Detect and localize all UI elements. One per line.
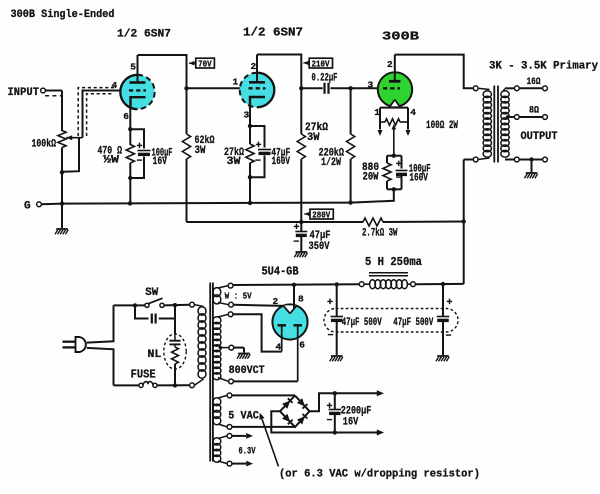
svg-text:1/2 6SN7: 1/2 6SN7: [243, 26, 303, 40]
node NL bottom junction: [173, 383, 177, 387]
svg-text:2: 2: [251, 61, 257, 72]
tube V2 cathode: [250, 97, 265, 108]
880 network box top: [387, 155, 402, 157]
wire V1 cathode down: [129, 108, 131, 146]
capacitor 47uF 350V: [295, 231, 307, 233]
HV winding top terminal: [228, 312, 233, 317]
PT primary top terminal: [190, 302, 195, 307]
svg-text:−: −: [327, 416, 333, 427]
svg-text:70V: 70V: [198, 58, 212, 69]
capacitor 47uF 500V left: [330, 316, 343, 318]
wire HV CT stub: [219, 347, 229, 349]
wire bridge minus rail: [271, 411, 377, 432]
svg-text:½W: ½W: [103, 154, 119, 166]
shielded cable dashes to grid: [78, 88, 114, 136]
wire 8 ohm tap: [507, 116, 514, 118]
wire HV CT to ground: [234, 347, 244, 349]
dashed capacitor group outline: [324, 309, 458, 333]
svg-text:3W: 3W: [195, 145, 206, 157]
fuse: [139, 383, 143, 387]
NL electrodes: [174, 334, 176, 340]
wire pot bottom: [61, 148, 63, 229]
wire wiper to V1 grid: [83, 91, 127, 138]
svg-text:16Ω: 16Ω: [527, 77, 541, 88]
ground at OPT secondary: [526, 172, 538, 174]
svg-text:350V: 350V: [309, 241, 330, 253]
wire V1 plate to 62k line: [138, 54, 187, 56]
svg-text:16V: 16V: [343, 416, 359, 428]
svg-text:SW: SW: [145, 287, 158, 299]
tube V2 grid: [249, 87, 266, 89]
OPT primary top terminal: [473, 86, 478, 91]
node pot ground junction: [60, 170, 64, 174]
NL resistor: [174, 344, 176, 347]
wire HV top to pin4: [233, 314, 282, 351]
svg-text:20W: 20W: [363, 172, 379, 184]
wire HV bottom to pin6: [233, 380, 297, 382]
pot R1 wiper arrow: [66, 135, 72, 140]
tube 5U4 left plate: [278, 324, 287, 326]
svg-text:G: G: [24, 201, 31, 213]
resistor 220k grid leak: [347, 134, 355, 159]
node V1 cathode junction: [128, 127, 132, 131]
svg-text:300B Single-Ended: 300B Single-Ended: [11, 9, 115, 21]
svg-text:3K - 3.5K Primary: 3K - 3.5K Primary: [489, 61, 598, 73]
resistor 62k 3W: [182, 134, 190, 159]
tube V2 plate: [249, 81, 265, 84]
svg-text:2.7kΩ 3W: 2.7kΩ 3W: [362, 228, 398, 240]
wire 5VAC bottom to bridge: [232, 426, 295, 428]
resistor 880 20W: [386, 156, 388, 163]
svg-text:INPUT: INPUT: [8, 87, 40, 99]
node V1 cathode cap bottom junction: [128, 176, 132, 180]
node 280V cap junction: [299, 220, 303, 224]
OPT 8ohm tap terminal: [514, 115, 519, 120]
svg-text:−: −: [328, 331, 334, 342]
svg-text:1/2 6SN7: 1/2 6SN7: [117, 29, 171, 41]
wire V2 cathode cap branch: [250, 126, 265, 148]
wire hum pot left arm: [379, 108, 381, 130]
capacitor 2200uF 16V: [334, 393, 336, 409]
node B+ riser junction: [462, 219, 466, 223]
wire grid node to 220k: [350, 88, 352, 134]
OPT primary bottom terminal: [473, 157, 478, 162]
capacitor 100uF 160V (300B): [401, 156, 403, 169]
tube V1 grid: [129, 89, 146, 91]
svg-text:+: +: [294, 223, 300, 234]
wire 0 ohm tap: [505, 159, 514, 161]
resistor 2.7k 3W: [363, 218, 383, 226]
svg-text:47µF 500V: 47µF 500V: [393, 317, 433, 329]
resistor 27k 3W cathode: [246, 144, 254, 163]
ground at input pot: [56, 228, 68, 230]
wire V1 cathode cap branch: [130, 129, 144, 148]
OPT secondary coil: [501, 91, 509, 98]
wire V2 cathode down: [249, 107, 251, 144]
tube 300B grid: [383, 87, 400, 89]
wire 16 ohm out: [519, 87, 542, 89]
svg-text:3: 3: [244, 110, 250, 121]
annotation arrow to 5VAC: [262, 419, 279, 467]
svg-text:210V: 210V: [312, 58, 330, 69]
svg-text:8Ω: 8Ω: [529, 106, 539, 117]
svg-text:OUTPUT: OUTPUT: [521, 131, 558, 143]
wire right filter cap: [442, 284, 444, 316]
tube 5U4 filament notch: [283, 305, 297, 313]
node V1 plate junction: [184, 86, 188, 90]
wire 0 ohm out: [519, 159, 542, 161]
5V winding top terminal: [228, 283, 233, 288]
wire rectifier B+ rail: [232, 283, 360, 286]
capacitor 47uF 500V right: [437, 316, 450, 318]
node 2200uF bottom junction: [333, 430, 337, 434]
svg-text:5 VAC: 5 VAC: [228, 410, 259, 422]
bridge diode D1: [282, 401, 290, 409]
svg-text:1: 1: [233, 77, 239, 88]
svg-text:−: −: [137, 157, 143, 168]
HV winding bottom terminal: [229, 379, 234, 384]
16 ohm out terminal: [543, 86, 548, 91]
resistor 27k 3W plate load: [297, 134, 305, 159]
svg-text:8: 8: [298, 294, 304, 305]
node 300B grid junction: [348, 86, 352, 90]
OPT 16ohm tap terminal: [514, 86, 519, 91]
svg-text:800VCT: 800VCT: [229, 365, 265, 377]
wire to V2 grid: [187, 87, 241, 89]
voltage box 280V: [304, 212, 310, 217]
svg-text:4: 4: [112, 80, 118, 91]
wire plug to switch rail: [87, 305, 114, 342]
5VAC bottom terminal: [227, 425, 232, 430]
6.3V bottom terminal: [227, 461, 232, 466]
node left filter cap junction: [335, 282, 339, 286]
wire 16 ohm tap: [505, 87, 514, 89]
svg-text:160V: 160V: [272, 156, 291, 168]
node secondary ground junction: [529, 157, 533, 161]
svg-text:(or 6.3 VAC w/dropping resisto: (or 6.3 VAC w/dropping resistor): [279, 469, 480, 481]
tube 300B envelope: [378, 72, 412, 106]
node junction pot/gbus: [60, 201, 64, 205]
capacitor 47uF 160V: [258, 149, 271, 151]
ground at 47uF 350V: [296, 251, 308, 253]
wire 220k to ground bus: [350, 159, 352, 203]
OPT 0ohm tap terminal: [514, 157, 519, 162]
svg-text:3: 3: [368, 79, 374, 90]
bridge diode D2: [297, 398, 305, 406]
node 2200uF top junction: [333, 391, 337, 395]
wire shield drain: [63, 138, 79, 172]
svg-text:−: −: [255, 157, 261, 168]
wire fuse rail: [114, 384, 139, 386]
AC plug: [63, 341, 77, 343]
svg-text:3W: 3W: [227, 156, 241, 168]
bridge diode D3: [282, 414, 290, 422]
svg-text:2: 2: [387, 59, 393, 70]
voltage box 70V: [189, 61, 195, 66]
wire grid node to 300B: [351, 87, 379, 89]
svg-text:2: 2: [273, 296, 279, 307]
node 880 bottom junction: [392, 187, 396, 191]
neon lamp NL dashed ellipse: [164, 334, 186, 369]
880 network box bottom: [387, 188, 402, 190]
tube 5U4 envelope: [272, 304, 307, 339]
svg-text:6.3V: 6.3V: [239, 446, 256, 457]
wire coupling cap to grid node: [331, 87, 351, 89]
wire 880 to ground bus: [351, 189, 394, 202]
shield dashes at input: [45, 95, 61, 97]
svg-text:+: +: [256, 141, 262, 152]
svg-text:+: +: [137, 142, 143, 153]
PT HV winding coil: [218, 314, 228, 317]
PT 6.3V winding coil: [218, 436, 227, 439]
tube 300B filament notch: [390, 100, 400, 107]
HV winding CT terminal: [229, 345, 234, 350]
PT primary bottom terminal: [190, 383, 195, 388]
wire plate to coupling cap: [301, 87, 322, 89]
tube V1 1/2 6SN7 envelope: [120, 75, 154, 109]
svg-text:280V: 280V: [312, 209, 330, 220]
svg-text:+: +: [327, 402, 333, 413]
wire 47uF350 to gnd: [300, 237, 302, 251]
svg-text:+: +: [447, 298, 453, 309]
svg-text:5U4-GB: 5U4-GB: [262, 266, 299, 279]
svg-text:160V: 160V: [409, 172, 428, 184]
wire 8 ohm out: [519, 116, 542, 118]
capacitor 100uF 16V: [138, 150, 151, 152]
wire input to pot: [45, 90, 62, 92]
ground left filter cap: [331, 355, 343, 357]
PT 5V winding coil: [218, 286, 228, 288]
node snubber left junction: [133, 303, 137, 307]
OPT core: [493, 86, 495, 163]
choke left terminal: [359, 282, 364, 287]
bridge rectifier diamond: [280, 396, 310, 427]
tube 300B plate: [389, 80, 401, 83]
choke core: [369, 272, 408, 274]
tube 5U4 right plate: [294, 324, 303, 326]
svg-text:6: 6: [299, 340, 305, 351]
svg-text:100kΩ: 100kΩ: [32, 138, 57, 150]
svg-text:5 H 250ma: 5 H 250ma: [365, 256, 422, 269]
wire B+ 280V rail: [187, 221, 364, 223]
5V winding bottom terminal: [229, 302, 234, 307]
node junction V2 cathode/gbus: [248, 201, 252, 205]
hum potentiometer: [380, 121, 385, 123]
choke right terminal: [411, 282, 416, 287]
svg-text:300B: 300B: [382, 30, 420, 44]
potentiometer R1 100k: [58, 131, 66, 148]
node V2 cathode junction: [248, 124, 252, 128]
svg-text:47µF 500V: 47µF 500V: [342, 317, 382, 329]
svg-text:NL: NL: [147, 349, 161, 361]
wire left filter cap gnd: [336, 322, 338, 355]
tube V2 1/2 6SN7 envelope: [240, 73, 275, 108]
node NL top junction: [173, 303, 177, 307]
wire V2 plate to 27k line: [257, 54, 301, 56]
wire ground bus G: [41, 203, 62, 206]
node junction V1 cathode/gbus: [128, 201, 132, 205]
5VAC top terminal: [227, 393, 232, 398]
svg-text:−: −: [446, 332, 452, 343]
hum pot wiper: [392, 124, 397, 130]
8 ohm out terminal: [543, 115, 548, 120]
svg-text:16V: 16V: [153, 156, 168, 168]
node pin8 junction: [292, 283, 296, 287]
svg-text:+: +: [396, 160, 402, 171]
wire 6.3V bottom arrow: [232, 463, 246, 465]
tube V1 cathode: [131, 97, 146, 108]
wire pin8 to B+ rail: [293, 285, 295, 309]
voltage box 210V: [303, 61, 309, 66]
svg-text:5: 5: [130, 61, 136, 72]
wire bridge plus rail: [310, 393, 378, 411]
hum pot box top: [380, 107, 408, 109]
svg-text:3W: 3W: [307, 132, 320, 144]
wire NL line lower: [174, 364, 176, 385]
svg-text:−: −: [396, 174, 402, 185]
PT core: [209, 283, 211, 462]
switch SW: [145, 303, 149, 307]
svg-text:4: 4: [410, 107, 416, 118]
wire 5VAC top to bridge: [232, 394, 295, 396]
node junction 220k/gbus: [348, 200, 352, 204]
wire to 47uF 350V: [300, 222, 302, 231]
wire secondary to ground: [531, 160, 533, 173]
node right filter cap junction: [441, 282, 445, 286]
tube V1 plate: [130, 81, 146, 84]
ground at HV center tap: [238, 353, 250, 355]
wire hum pot right arm: [407, 108, 409, 130]
wire choke to riser: [415, 283, 463, 285]
OPT primary coil: [478, 88, 490, 89]
node wiper to 880 junction: [392, 154, 396, 158]
svg-text:FUSE: FUSE: [131, 368, 156, 381]
6.3V top terminal: [227, 434, 232, 439]
wire 300B plate to OPT: [395, 55, 474, 89]
ground right filter cap: [437, 355, 449, 357]
resistor 470ohm: [126, 145, 134, 164]
wire NL line upper: [174, 305, 176, 334]
capacitor 0.22uF: [323, 83, 325, 94]
svg-text:100Ω 2W: 100Ω 2W: [426, 120, 458, 132]
svg-text:1/2W: 1/2W: [321, 157, 341, 169]
svg-text:0.22µF: 0.22µF: [312, 73, 338, 85]
PT 5VAC winding coil: [218, 395, 227, 398]
svg-text:+: +: [327, 298, 333, 309]
wire OPT bottom to B+ riser: [464, 159, 474, 161]
wire switch rail: [114, 304, 145, 306]
wire pin2 5V winding: [233, 305, 284, 306]
PT primary coil: [194, 305, 203, 307]
svg-text:6: 6: [123, 111, 129, 122]
node V2 plate junction: [299, 86, 303, 90]
0 ohm out terminal: [543, 157, 548, 162]
svg-text:−: −: [293, 238, 299, 249]
wire left filter cap: [336, 284, 338, 316]
node V2 cathode cap bottom junction: [248, 175, 252, 179]
bridge diode D4: [297, 416, 305, 424]
snubber capacitor branch: [135, 305, 149, 318]
wire plug to fuse rail: [87, 348, 114, 386]
wire right filter cap gnd: [442, 322, 444, 355]
choke 5H 250ma coil: [364, 283, 370, 285]
svg-text:W : 5V: W : 5V: [225, 291, 252, 302]
wire 6.3V top arrow: [232, 435, 246, 437]
